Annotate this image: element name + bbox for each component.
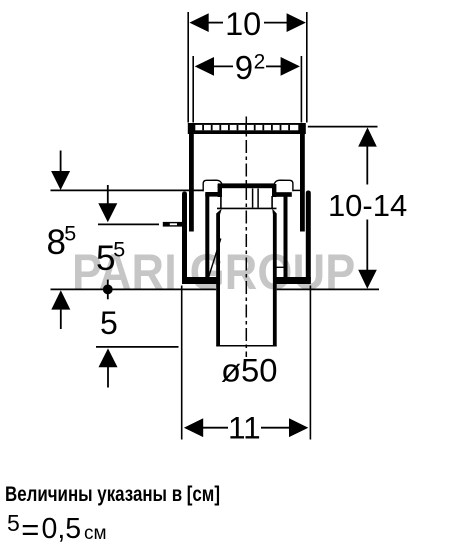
dot marker on floor line xyxy=(107,280,109,300)
container bottom left xyxy=(182,277,218,284)
bottom note line 2 xyxy=(7,510,20,537)
centerline xyxy=(245,117,247,358)
svg-text:5: 5 xyxy=(100,305,118,341)
drain funnel wall left xyxy=(218,184,222,197)
fastening tab xyxy=(163,222,183,227)
svg-text:11: 11 xyxy=(228,409,261,445)
pipe wall left xyxy=(216,209,222,346)
right inner tick xyxy=(274,266,284,268)
svg-text:5: 5 xyxy=(64,222,76,246)
pipe shoulder xyxy=(217,207,277,209)
arrow up at floor xyxy=(51,290,70,309)
level line 5.5 top xyxy=(98,223,159,225)
svg-text:ø50: ø50 xyxy=(221,352,278,389)
drain funnel wall right xyxy=(272,184,276,197)
dimension 9.2 arrow right xyxy=(281,57,300,76)
drain body wall right xyxy=(284,196,288,279)
dimension 9.2 arrow left xyxy=(195,57,214,76)
pipe wall right xyxy=(272,209,277,346)
frame wall left xyxy=(189,134,194,232)
svg-text:10: 10 xyxy=(225,6,261,42)
dimension 10 arrow left xyxy=(189,13,208,32)
pipe bottom edge xyxy=(216,345,277,347)
grate bar xyxy=(188,123,306,134)
svg-text:9: 9 xyxy=(235,49,253,86)
dimension 10-14 vertical line xyxy=(358,127,377,146)
container bottom right xyxy=(276,277,311,284)
container left wall xyxy=(182,192,187,285)
drain step right xyxy=(274,192,292,197)
bottom note line 1 xyxy=(5,483,220,507)
clamp lines xyxy=(252,189,254,208)
level line 8.5 top xyxy=(51,189,204,191)
dimension 9.2 extension lines xyxy=(192,56,194,123)
level tick right of wing xyxy=(293,189,301,191)
arrow down 5.5 xyxy=(107,185,109,206)
dimension 11 arrow right xyxy=(289,418,308,437)
frame wall right xyxy=(300,134,305,232)
dimension 11 extension lines xyxy=(181,286,183,440)
dimension 10 line xyxy=(208,22,223,24)
pipe end level line xyxy=(96,346,179,348)
svg-text:8: 8 xyxy=(47,223,66,262)
drain flange bar xyxy=(218,183,275,188)
watermark PARI GROUP xyxy=(72,243,356,301)
dimension 11 arrow left xyxy=(184,418,203,437)
arrow down 8.5 xyxy=(60,151,62,174)
container right wall xyxy=(306,191,311,285)
svg-text:10-14: 10-14 xyxy=(328,188,407,223)
drain wing left xyxy=(203,180,222,191)
dimension 10 arrow right xyxy=(287,13,306,32)
right top level line xyxy=(308,126,378,128)
drain step left xyxy=(205,192,219,197)
dimension 11 line xyxy=(202,427,228,429)
svg-text:2: 2 xyxy=(254,50,266,73)
drain body wall left xyxy=(205,193,209,279)
dimension 9.2 line xyxy=(213,65,233,67)
dimension 10 extension lines xyxy=(187,12,189,123)
diagonal weep line xyxy=(208,239,221,280)
arrow up 5 xyxy=(99,348,118,367)
floor line xyxy=(51,288,217,290)
drain wing right xyxy=(274,180,293,191)
svg-text:5: 5 xyxy=(113,238,125,262)
